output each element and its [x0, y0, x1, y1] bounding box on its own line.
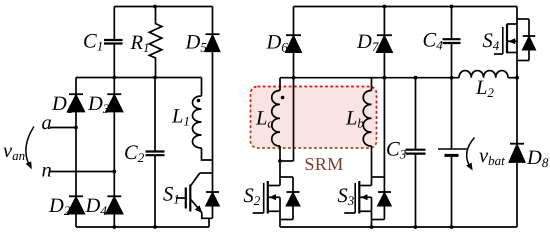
junction D7 top rail [383, 5, 387, 9]
diode D2 [68, 196, 84, 227]
diode D4 [106, 196, 122, 227]
wire L2 to S4 node [508, 77, 517, 79]
wire C1 branch upper [113, 7, 115, 41]
junction D4 bottom rail [112, 225, 116, 229]
diode S2 antiparallel [287, 177, 300, 220]
svg-text:D8: D8 [526, 147, 549, 170]
capacitor C4 [443, 39, 461, 43]
junction D6 second rail [292, 76, 296, 80]
diode S4 antiparallel [523, 19, 535, 61]
resistor R1 [149, 7, 162, 78]
wire C3 branch upper [415, 78, 417, 150]
diode D7 [377, 7, 392, 193]
arrow v_bat [466, 138, 474, 171]
svg-text:D3: D3 [87, 93, 110, 116]
svg-text:D7: D7 [356, 31, 379, 54]
wire C2 branch upper [154, 78, 156, 152]
diode S3 antiparallel [378, 192, 391, 220]
svg-text:C1: C1 [83, 31, 103, 54]
wire second rail right [280, 77, 459, 79]
junction C4-battery second rail [450, 76, 454, 80]
transistor S4 (MOSFET) [494, 7, 529, 78]
node n junction [112, 170, 116, 174]
transistor S1 (IGBT) [176, 173, 213, 227]
junction top rail R1 [153, 5, 157, 9]
svg-text:C2: C2 [124, 142, 145, 165]
svg-text:S4: S4 [483, 30, 500, 53]
svg-text:D4: D4 [85, 195, 108, 218]
junction battery bottom rail [450, 225, 454, 229]
capacitor C2 [146, 152, 165, 156]
node a junction [74, 126, 78, 130]
inductor Lb [363, 78, 371, 177]
diode D1 [68, 78, 84, 197]
junction S3 bottom rail [370, 225, 374, 229]
junction C1 column at bridge rail [112, 76, 116, 80]
wire bottom rail right [280, 226, 517, 228]
wire C1 to bridge [113, 44, 115, 95]
SRM dashed enclosure box [251, 87, 377, 149]
diode D5 [206, 7, 220, 174]
svg-text:a: a [42, 112, 52, 134]
inductor L1 [193, 78, 213, 161]
wire bottom rail left [76, 226, 209, 228]
wire top rail right [294, 6, 518, 8]
wire C2 branch lower [154, 155, 156, 227]
junction C2 bottom rail [153, 225, 157, 229]
capacitor C1 [104, 40, 123, 44]
svg-text:C3: C3 [386, 139, 407, 162]
svg-text:S2: S2 [244, 185, 261, 208]
svg-text:SRM: SRM [304, 154, 343, 174]
inductor La [272, 78, 285, 177]
wire C3 branch lower [415, 154, 417, 227]
wire node a [50, 127, 76, 129]
svg-text:L1: L1 [171, 106, 190, 129]
wire C4 to battery [451, 43, 453, 149]
junction D7 second rail [383, 76, 387, 80]
svg-text:S1: S1 [163, 184, 180, 207]
diode D6 [286, 7, 301, 162]
svg-text:D2: D2 [48, 195, 71, 218]
svg-text:R1: R1 [130, 32, 150, 55]
junction C4 top rail [450, 5, 454, 9]
battery v_bat [438, 149, 467, 227]
diode D8 [509, 78, 524, 227]
svg-text:S3: S3 [338, 185, 355, 208]
arrow v_an [26, 127, 34, 170]
transistor S3 (MOSFET) [344, 177, 384, 227]
svg-text:vbat: vbat [479, 145, 505, 168]
svg-text:n: n [42, 160, 52, 182]
svg-text:D5: D5 [185, 32, 208, 55]
junction C3 second rail [414, 76, 418, 80]
junction L2-S4-D8 node [515, 76, 519, 80]
svg-text:D6: D6 [266, 31, 289, 54]
wire top rail left [114, 6, 212, 8]
wire C4 branch upper [451, 7, 453, 40]
svg-text:van: van [3, 140, 25, 163]
wire node n [49, 171, 114, 173]
transistor S2 (MOSFET) [253, 177, 293, 227]
wire D6 jog to phase A [280, 160, 294, 162]
wire bridge top rail [76, 77, 202, 79]
junction D6 jog to phase A line [278, 159, 282, 163]
junction R1-C2 at bridge rail [153, 76, 157, 80]
capacitor C3 [406, 150, 426, 154]
inductor L2 [459, 71, 508, 78]
diode S1 antiparallel [206, 173, 219, 218]
junction C3 bottom rail [414, 225, 418, 229]
svg-text:C4: C4 [423, 30, 444, 53]
svg-text:D1: D1 [51, 93, 73, 116]
svg-text:L2: L2 [475, 77, 494, 100]
diode D3 [106, 94, 122, 196]
